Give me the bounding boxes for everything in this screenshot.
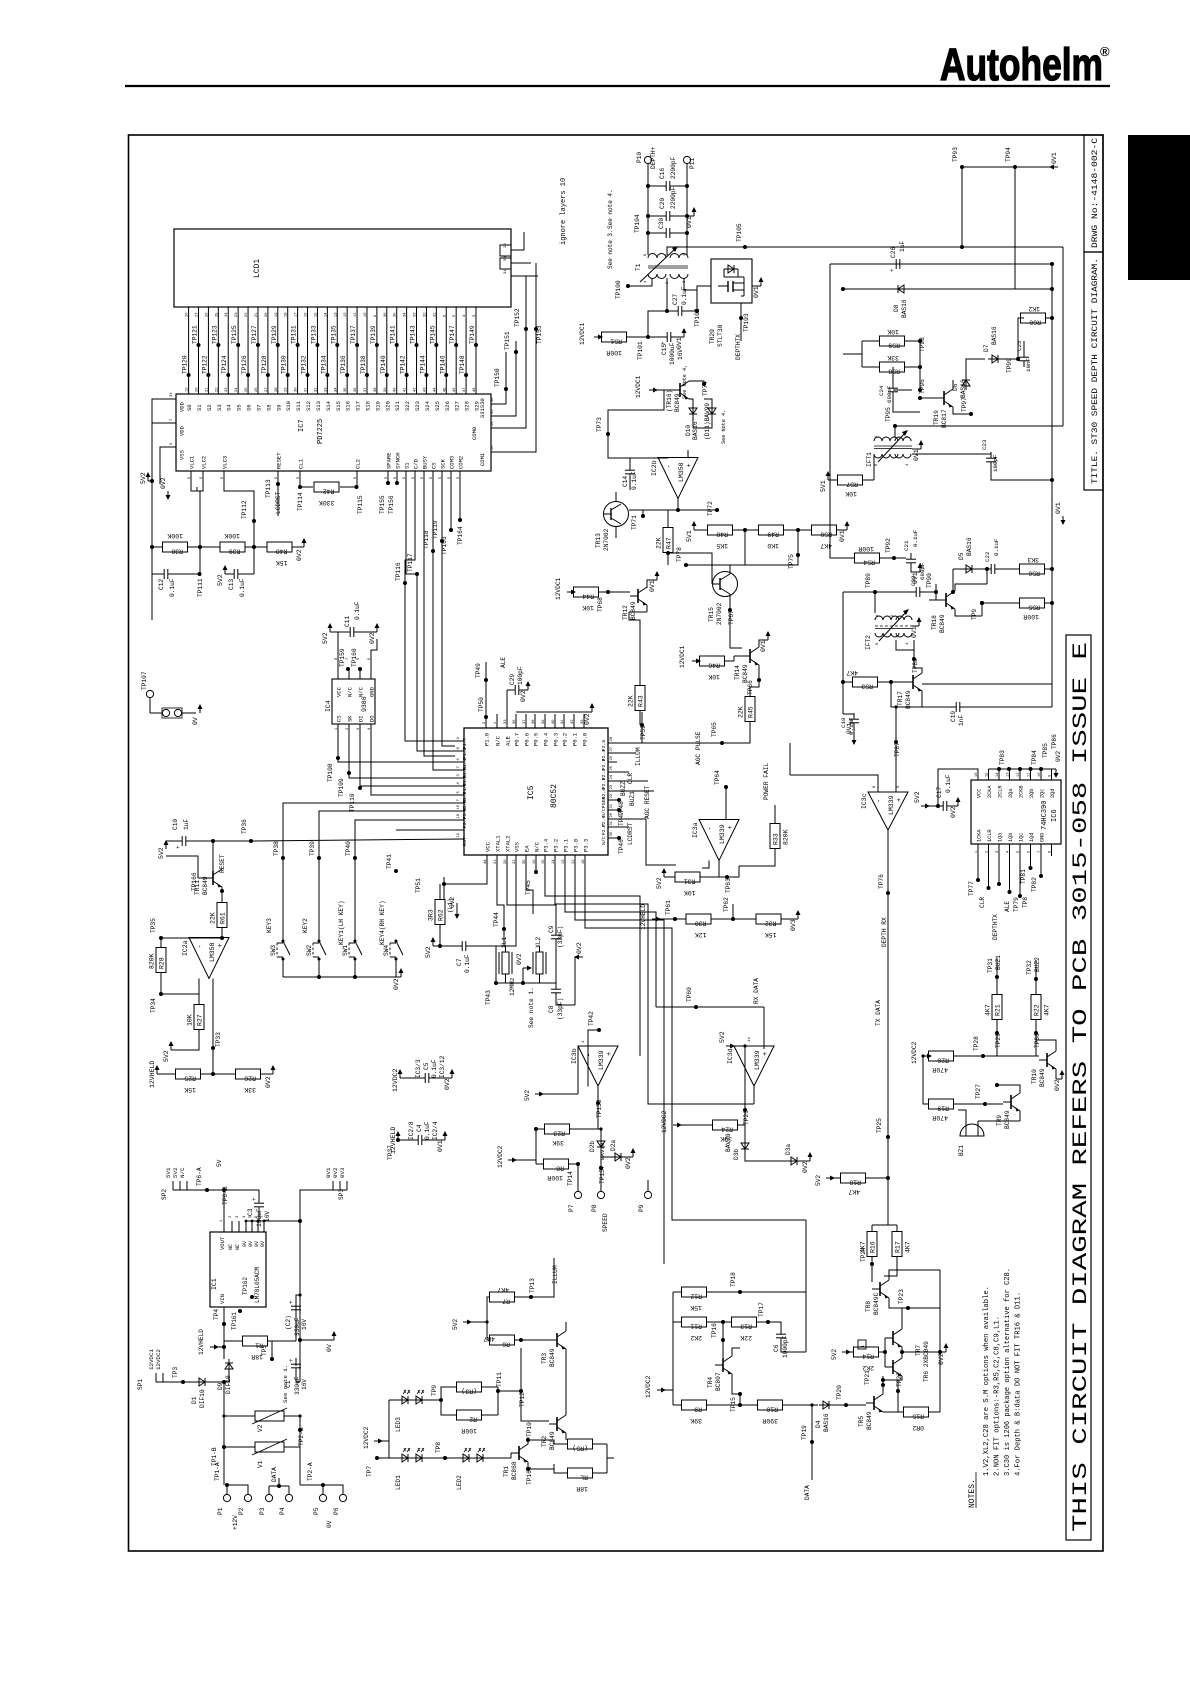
svg-text:D3a: D3a xyxy=(785,1144,792,1155)
svg-text:20: 20 xyxy=(265,312,269,317)
net 0V2 (IC4) xyxy=(376,625,378,632)
resistor R30 12K xyxy=(686,914,711,924)
svg-text:0.1uF: 0.1uF xyxy=(912,529,919,547)
connector P9 xyxy=(644,1191,651,1198)
svg-text:41: 41 xyxy=(561,719,565,724)
svg-text:TP138: TP138 xyxy=(360,355,367,374)
svg-text:0V1: 0V1 xyxy=(760,640,767,652)
resistor R47 22K xyxy=(663,528,673,553)
svg-text:0V2: 0V2 xyxy=(802,1161,809,1173)
svg-text:ALE: ALE xyxy=(1004,901,1011,912)
svg-text:See note 4.: See note 4. xyxy=(607,189,614,229)
svg-text:P1.7: P1.7 xyxy=(462,738,468,750)
svg-text:TP63: TP63 xyxy=(725,878,732,893)
svg-text:0R2: 0R2 xyxy=(912,1424,924,1431)
resistor R13 22K xyxy=(723,1321,732,1323)
svg-text:0V2: 0V2 xyxy=(332,1167,339,1178)
svg-text:2CLR: 2CLR xyxy=(998,786,1004,798)
svg-text:-: - xyxy=(876,799,884,803)
svg-text:®: ® xyxy=(1100,44,1110,59)
svg-text:R2: R2 xyxy=(469,1416,477,1423)
svg-text:P2: P2 xyxy=(238,1507,245,1515)
svg-text:R27: R27 xyxy=(197,1014,204,1026)
svg-text:24: 24 xyxy=(610,774,614,779)
net DEPTHTX (IC6) xyxy=(998,856,1000,884)
svg-text:CLR: CLR xyxy=(979,897,986,908)
svg-text:35: 35 xyxy=(394,312,398,317)
svg-text:26: 26 xyxy=(186,312,190,317)
connector P1 +12V xyxy=(226,1485,228,1494)
resistor R51 100R xyxy=(602,332,627,342)
svg-text:39: 39 xyxy=(542,719,546,724)
svg-text:TP158: TP158 xyxy=(596,1099,603,1118)
svg-text:39K: 39K xyxy=(690,1417,702,1424)
svg-text:BUZ1: BUZ1 xyxy=(629,791,636,806)
svg-text:0V2: 0V2 xyxy=(1055,751,1062,762)
test point TP25 xyxy=(886,1135,890,1139)
wire IC3d out to P3.2 fan xyxy=(700,1103,754,1105)
resistor R11 2K2 xyxy=(673,1321,682,1323)
svg-text:TP4: TP4 xyxy=(213,1309,220,1320)
svg-text:VLC2: VLC2 xyxy=(201,456,208,469)
svg-text:11: 11 xyxy=(572,859,576,864)
svg-text:TP61: TP61 xyxy=(665,900,672,915)
svg-text:0V: 0V xyxy=(326,1344,333,1352)
capacitor C15 1000uF 16V xyxy=(648,336,664,338)
test point TP72 xyxy=(677,499,679,511)
svg-text:R11: R11 xyxy=(690,1323,702,1330)
svg-text:TP12: TP12 xyxy=(519,1392,526,1407)
net CLR (IC6) xyxy=(988,856,990,888)
svg-text:P1: P1 xyxy=(217,1507,224,1515)
svg-text:TP117: TP117 xyxy=(407,553,414,572)
svg-text:15: 15 xyxy=(314,312,318,317)
svg-text:See Note 4.: See Note 4. xyxy=(721,410,727,444)
net 0V1 (IFT1) xyxy=(912,448,921,450)
svg-text:(33pF): (33pF) xyxy=(557,998,564,1020)
net 0V2 (C5) xyxy=(451,1071,453,1078)
test point TP18 xyxy=(738,1290,742,1294)
LCD segment pin S1 / test point TP121 xyxy=(198,307,200,394)
svg-text:TP89: TP89 xyxy=(865,573,872,588)
svg-text:0.1uF: 0.1uF xyxy=(945,774,952,793)
svg-text:TP161: TP161 xyxy=(231,1312,238,1330)
test point TP95 xyxy=(893,424,897,428)
capacitor C25 10nF xyxy=(1002,358,1018,360)
svg-text:P2.5: P2.5 xyxy=(601,740,607,752)
svg-text:BAS16: BAS16 xyxy=(991,326,998,345)
svg-text:COM1: COM1 xyxy=(479,452,486,466)
resistor R46 10K xyxy=(700,656,725,666)
svg-text:TP44: TP44 xyxy=(493,912,500,927)
resistor (R3) xyxy=(457,1382,482,1392)
svg-text:See note 1.: See note 1. xyxy=(528,987,535,1028)
svg-text:C11: C11 xyxy=(344,616,351,627)
test point TP15 xyxy=(738,1392,742,1396)
svg-text:N/C: N/C xyxy=(495,735,502,746)
key switch common to 0V2 xyxy=(283,976,401,978)
svg-text:LM358: LM358 xyxy=(678,462,685,482)
svg-text:LM339: LM339 xyxy=(754,1050,761,1070)
svg-text:R19: R19 xyxy=(937,1105,949,1112)
svg-text:TP123: TP123 xyxy=(211,325,218,344)
svg-text:0V2: 0V2 xyxy=(393,978,400,990)
test point TP108 xyxy=(337,750,339,758)
test point TP82 xyxy=(1040,856,1042,876)
svg-text:P6: P6 xyxy=(333,1507,340,1515)
resistor R39 100K xyxy=(220,542,245,552)
svg-text:TP129: TP129 xyxy=(271,325,278,344)
svg-text:12VDC2: 12VDC2 xyxy=(645,1375,652,1398)
resistor R53 4K7 xyxy=(843,681,853,683)
svg-text:4K7: 4K7 xyxy=(848,1188,860,1195)
svg-text:TP105: TP105 xyxy=(736,223,743,242)
svg-text:TP124: TP124 xyxy=(221,355,228,374)
svg-text:N/C: N/C xyxy=(347,686,354,697)
svg-text:DIF10: DIF10 xyxy=(199,1389,206,1408)
svg-text:TP131: TP131 xyxy=(291,325,298,344)
svg-text:TP19: TP19 xyxy=(801,1425,808,1440)
svg-text:36: 36 xyxy=(513,719,517,724)
svg-text:0V2: 0V2 xyxy=(449,897,456,908)
test point TP59 xyxy=(640,723,644,727)
svg-text:S13: S13 xyxy=(315,401,322,411)
capacitor C28 680pF xyxy=(875,591,913,593)
svg-text:BAS16: BAS16 xyxy=(901,299,908,318)
connector P3 xyxy=(265,1494,272,1501)
svg-text:TP33: TP33 xyxy=(215,1032,222,1047)
svg-text:TP132: TP132 xyxy=(301,355,308,374)
svg-text:TP76: TP76 xyxy=(878,874,885,889)
svg-text:0.1uF: 0.1uF xyxy=(431,1059,438,1078)
net 0V (power) xyxy=(300,1339,334,1341)
svg-text:15K: 15K xyxy=(184,1086,196,1093)
svg-text:P3.0: P3.0 xyxy=(573,839,580,852)
wire S1 column to P1.5 xyxy=(433,700,455,770)
LCD segment pin S26 / test point TP146 xyxy=(445,307,447,394)
svg-text:R8: R8 xyxy=(556,1165,564,1172)
svg-text:R21: R21 xyxy=(995,1004,1002,1016)
transistor TR2 BC849 xyxy=(556,1417,558,1431)
connector P11 xyxy=(683,156,690,163)
wire CS line TP118 xyxy=(432,480,434,551)
wire IC3c output xyxy=(887,830,889,950)
svg-text:DEPTH+: DEPTH+ xyxy=(650,146,657,169)
test point TP30 xyxy=(1034,1031,1038,1035)
svg-text:SPEED: SPEED xyxy=(602,1213,609,1232)
svg-text:KEY1(LH KEY): KEY1(LH KEY) xyxy=(338,900,345,945)
svg-text:N/C: N/C xyxy=(179,1167,186,1178)
resistor R57 10K xyxy=(838,475,863,485)
svg-text:S23: S23 xyxy=(414,401,421,411)
capacitor C14 0.1uF xyxy=(625,469,635,471)
svg-text:2Qb: 2Qb xyxy=(1029,789,1035,798)
LCD segment pin S0 / test point TP120 xyxy=(188,307,190,394)
test point TP8 xyxy=(443,1456,447,1460)
wire CS column to P1.6 xyxy=(417,700,455,751)
svg-text:33K: 33K xyxy=(887,354,899,361)
svg-text:5V2: 5V2 xyxy=(914,791,921,803)
svg-text:TP97: TP97 xyxy=(961,397,968,412)
svg-text:TP112: TP112 xyxy=(241,500,248,519)
svg-text:VLC3: VLC3 xyxy=(222,456,229,469)
svg-text:+: + xyxy=(889,268,896,272)
net 0V1 (C20) xyxy=(687,215,694,217)
svg-text:TP166: TP166 xyxy=(191,872,198,891)
svg-text:C6: C6 xyxy=(773,1344,780,1352)
svg-text:22K: 22K xyxy=(628,695,635,707)
svg-text:R16: R16 xyxy=(870,1241,877,1253)
svg-text:C7: C7 xyxy=(456,958,463,966)
test point TP32 xyxy=(1034,977,1038,981)
svg-text:TP75: TP75 xyxy=(788,554,795,569)
svg-text:TP100: TP100 xyxy=(615,280,622,299)
svg-text:TP59: TP59 xyxy=(640,725,647,740)
test point TP158 xyxy=(597,1087,599,1130)
test point TP34 xyxy=(159,992,163,996)
svg-text:12VHELD: 12VHELD xyxy=(198,1329,205,1355)
svg-text:+: + xyxy=(896,798,904,802)
wire VLC1-VLC2 link xyxy=(191,480,203,491)
svg-text:R15: R15 xyxy=(912,1413,924,1420)
svg-text:N/C: N/C xyxy=(601,808,607,817)
svg-text:38: 38 xyxy=(532,719,536,724)
svg-text:0.1uF: 0.1uF xyxy=(631,471,638,490)
svg-text:THIS CIRCUIT DIAGRAM REFERS TO: THIS CIRCUIT DIAGRAM REFERS TO PCB 3015-… xyxy=(1070,642,1093,1532)
svg-text:TP151: TP151 xyxy=(504,331,511,350)
svg-text:TP36: TP36 xyxy=(241,819,248,834)
diode D11 BAV99 xyxy=(711,404,713,418)
svg-text:LM339: LM339 xyxy=(719,824,726,844)
svg-text:0V: 0V xyxy=(260,1241,266,1247)
test point TP1-B xyxy=(222,1445,226,1449)
svg-text:15: 15 xyxy=(986,772,990,777)
svg-text:TP153: TP153 xyxy=(536,325,543,344)
svg-text:TP148: TP148 xyxy=(459,355,466,374)
op-amp IC3a LM339 xyxy=(699,820,739,861)
svg-text:SW4: SW4 xyxy=(383,945,390,956)
LCD aux pin box B xyxy=(500,258,511,269)
svg-text:TP10: TP10 xyxy=(526,1422,533,1437)
svg-text:TR18: TR18 xyxy=(931,615,938,630)
svg-text:S7: S7 xyxy=(255,404,262,411)
wire BUSY column join xyxy=(424,700,455,756)
svg-text:IC5: IC5 xyxy=(527,785,536,800)
svg-text:TP135: TP135 xyxy=(330,325,337,344)
svg-text:P0.4: P0.4 xyxy=(543,732,550,746)
net 0V1 (top right) xyxy=(962,166,1058,168)
svg-text:19: 19 xyxy=(457,832,461,837)
svg-text:820K: 820K xyxy=(149,953,156,969)
net ILLUM (P2.4) xyxy=(617,752,636,754)
svg-text:DEPTH RX: DEPTH RX xyxy=(881,917,888,947)
svg-text:0.1uF: 0.1uF xyxy=(424,1121,431,1140)
test point TP42 xyxy=(597,1028,601,1032)
svg-text:D2b: D2b xyxy=(589,1141,596,1152)
svg-text:18: 18 xyxy=(582,859,586,864)
svg-text:SP1: SP1 xyxy=(137,1379,144,1390)
svg-text:2Qa: 2Qa xyxy=(1008,789,1014,798)
LCD segment pin S8 / test point TP128 xyxy=(267,307,269,394)
wire TR17 emitter xyxy=(922,683,1052,685)
test point TP6-A xyxy=(190,1189,207,1191)
svg-text:5V2: 5V2 xyxy=(815,1175,822,1186)
svg-text:0V2: 0V2 xyxy=(1054,1079,1061,1091)
capacitor C21 0.1uF xyxy=(906,558,916,560)
wire IC6 pullup bus xyxy=(989,768,1052,770)
svg-text:TP88: TP88 xyxy=(912,658,919,673)
svg-text:12K: 12K xyxy=(695,931,707,938)
svg-text:+: + xyxy=(727,825,735,829)
svg-text:TP51: TP51 xyxy=(415,878,422,893)
svg-text:SW3: SW3 xyxy=(270,945,277,956)
transistor TR4 BC807 xyxy=(722,1358,724,1372)
wire P3.0 fan xyxy=(575,868,664,1264)
svg-text:TP120: TP120 xyxy=(182,355,189,374)
svg-text:TP136: TP136 xyxy=(340,355,347,374)
diode LED1 xyxy=(398,1457,412,1459)
test point TP21 xyxy=(881,1383,885,1387)
svg-text:ignore layers 10: ignore layers 10 xyxy=(560,178,568,245)
svg-text:1K0: 1K0 xyxy=(767,542,779,549)
svg-text:ALE: ALE xyxy=(505,735,512,746)
test point TP166 xyxy=(220,889,224,893)
svg-text:ALE: ALE xyxy=(500,657,507,668)
svg-text:VSS: VSS xyxy=(514,841,521,852)
net DATA (P3/P4) xyxy=(277,1484,281,1488)
inductor R62 3R3 (L1) xyxy=(435,900,445,925)
svg-text:5V: 5V xyxy=(216,1159,223,1167)
svg-text:TP6-A: TP6-A xyxy=(196,1167,203,1186)
svg-text:4K7: 4K7 xyxy=(1044,1004,1051,1016)
test point TP2-B xyxy=(298,1428,302,1432)
svg-text:39: 39 xyxy=(384,387,388,392)
net 0V1 (right trunk) xyxy=(1062,516,1064,523)
svg-text:7: 7 xyxy=(457,766,461,768)
svg-text:C14: C14 xyxy=(622,476,629,487)
svg-text:SCK: SCK xyxy=(440,458,447,469)
transistor TR17 BC849 xyxy=(912,675,914,689)
capacitor C26 1uF xyxy=(895,259,897,269)
test point TP165 xyxy=(526,1467,530,1471)
svg-text:TP119: TP119 xyxy=(432,520,439,539)
resistor R38 100K xyxy=(163,542,188,552)
svg-text:SPARE: SPARE xyxy=(386,452,393,469)
test point TP20 xyxy=(844,1403,848,1407)
capacitor C9 (33pF) xyxy=(551,934,561,936)
svg-text:0V2: 0V2 xyxy=(625,1157,632,1169)
svg-text:11: 11 xyxy=(1028,772,1032,777)
svg-text:1K2: 1K2 xyxy=(1028,305,1040,312)
svg-text:TP147: TP147 xyxy=(449,325,456,344)
svg-text:D4: D4 xyxy=(815,1420,822,1428)
connector P6 xyxy=(323,1485,343,1494)
wire C/D line TP116 xyxy=(405,480,415,583)
svg-text:10: 10 xyxy=(364,312,368,317)
svg-text:TP25: TP25 xyxy=(876,1118,883,1133)
svg-text:5V2: 5V2 xyxy=(831,1349,838,1360)
svg-text:0V2: 0V2 xyxy=(520,690,527,702)
svg-text:BAS16: BAS16 xyxy=(966,537,973,556)
resistor R19 470R xyxy=(923,1056,929,1104)
test point TP84 xyxy=(1039,767,1043,771)
resistor R23 39K xyxy=(570,1128,599,1130)
resistor R16 4K7 xyxy=(887,1178,889,1225)
svg-text:5V2: 5V2 xyxy=(217,574,224,586)
svg-text:0.1uF: 0.1uF xyxy=(354,601,361,620)
capacitor C19 1nF xyxy=(891,682,953,707)
resistor R17 4K7 xyxy=(896,1225,898,1232)
net BUZ1 (P2.0) xyxy=(617,790,654,792)
svg-text:TP17: TP17 xyxy=(758,1302,765,1317)
svg-text:XL2: XL2 xyxy=(535,937,542,948)
svg-text:S19: S19 xyxy=(374,401,381,411)
svg-text:P2.3: P2.3 xyxy=(601,759,607,771)
svg-text:TP90: TP90 xyxy=(926,573,933,588)
svg-text:39K: 39K xyxy=(552,1139,564,1146)
svg-text:BC849: BC849 xyxy=(630,601,637,620)
svg-text:VDD: VDD xyxy=(179,425,186,436)
svg-text:31: 31 xyxy=(433,312,437,317)
svg-text:4.For Depth & B:data DO NOT FI: 4.For Depth & B:data DO NOT FIT TR16 & D… xyxy=(1015,1292,1023,1476)
test point TP26 xyxy=(743,1108,747,1112)
svg-text:TR13: TR13 xyxy=(595,533,602,548)
svg-text:R33: R33 xyxy=(773,833,780,845)
test point TP7 xyxy=(377,1457,389,1459)
svg-text:R9: R9 xyxy=(694,1406,702,1413)
test point TP63 xyxy=(725,875,729,879)
svg-text:P7: P7 xyxy=(568,1204,575,1212)
svg-text:R53: R53 xyxy=(861,683,873,690)
svg-text:TR1: TR1 xyxy=(503,1466,510,1477)
title block cell TITLE xyxy=(1084,252,1103,490)
svg-text:4K7: 4K7 xyxy=(483,1335,495,1342)
svg-text:R39: R39 xyxy=(229,548,241,555)
svg-text:2200pF: 2200pF xyxy=(670,186,677,209)
capacitor C29 100pF / ALE xyxy=(506,690,508,714)
svg-text:CL2: CL2 xyxy=(355,459,362,469)
svg-text:R51: R51 xyxy=(610,338,622,345)
svg-text:22K: 22K xyxy=(656,537,663,549)
svg-text:P1.6: P1.6 xyxy=(462,748,468,760)
svg-text:1Qd: 1Qd xyxy=(1029,833,1035,842)
test point TP77 xyxy=(977,856,979,880)
svg-text:-: - xyxy=(586,1053,594,1057)
test point TP13 xyxy=(529,1295,533,1299)
svg-text:TP113: TP113 xyxy=(265,479,272,498)
svg-text:19: 19 xyxy=(275,312,279,317)
svg-text:5V2: 5V2 xyxy=(425,946,432,958)
transistor TR16 BC849 xyxy=(679,383,681,397)
svg-text:R26: R26 xyxy=(244,1075,256,1082)
svg-text:100R: 100R xyxy=(461,1427,477,1434)
svg-text:10K: 10K xyxy=(582,604,594,611)
svg-text:TP114: TP114 xyxy=(297,492,304,511)
svg-text:KEY2: KEY2 xyxy=(302,918,309,933)
net 5V2 (reset) xyxy=(165,842,167,849)
svg-text:C20: C20 xyxy=(659,198,666,209)
svg-text:12MHz: 12MHz xyxy=(509,977,516,996)
svg-text:15K: 15K xyxy=(765,931,777,938)
capacitor C13 0.1uF xyxy=(233,569,235,579)
resistor R12 15K xyxy=(673,1291,682,1293)
svg-text:TP50: TP50 xyxy=(478,697,485,712)
svg-text:TP73: TP73 xyxy=(596,417,603,432)
svg-text:0.1uF: 0.1uF xyxy=(993,538,1000,556)
svg-text:0V1: 0V1 xyxy=(437,1140,444,1152)
svg-text:1000pF: 1000pF xyxy=(782,1335,789,1358)
resistor R6 4K7 xyxy=(487,1339,490,1341)
